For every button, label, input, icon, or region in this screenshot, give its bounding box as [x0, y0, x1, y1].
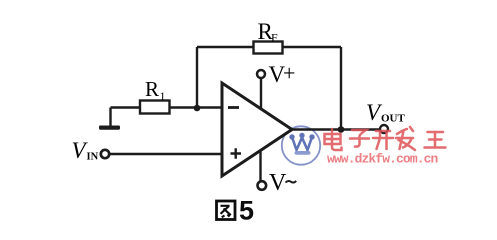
wire: V+ stub: [260, 79, 262, 111]
op-amp U1: [222, 83, 292, 176]
resistor R1: [140, 101, 170, 114]
wire: ground stub: [109, 108, 111, 127]
wire: feedback right vertical: [340, 47, 342, 130]
caption: figure 5 glyph TU: [217, 201, 236, 220]
terminal VIN: [101, 150, 109, 158]
svg-text:IN: IN: [87, 152, 99, 163]
wire: V- stub: [259, 150, 261, 181]
wire: output: [291, 128, 380, 130]
char dian: [325, 129, 342, 150]
char wang: [425, 132, 446, 148]
ground: [99, 126, 120, 130]
svg-text:R: R: [145, 77, 159, 101]
op-amp plus sign: [231, 148, 242, 158]
terminal V+: [257, 70, 265, 78]
svg-text:OUT: OUT: [381, 113, 406, 125]
wire: non-inverting input: [110, 153, 224, 155]
node: inverting junction: [194, 105, 201, 112]
svg-text:1: 1: [160, 89, 166, 103]
resistor RF: [254, 42, 283, 54]
op-amp minus sign: [228, 106, 239, 109]
char kai: [373, 131, 393, 149]
terminal V-: [258, 181, 267, 190]
svg-text:www.dzkfw.com.cn: www.dzkfw.com.cn: [327, 152, 439, 167]
svg-text:V: V: [269, 170, 287, 196]
wire: inverting input: [111, 106, 224, 108]
watermark text: dianzi kaifa wang: [325, 127, 446, 150]
node: output junction: [338, 126, 345, 133]
char zi: [350, 130, 369, 147]
terminal VOUT: [380, 125, 388, 133]
svg-text:+: +: [283, 61, 295, 86]
svg-text:F: F: [271, 31, 278, 45]
char fa: [396, 127, 415, 150]
svg-text:5: 5: [239, 196, 254, 226]
watermark W glyph: [289, 133, 314, 155]
wire: feedback top: [197, 46, 341, 48]
watermark logo circle: [282, 126, 320, 164]
wire: feedback left vertical: [196, 47, 198, 108]
